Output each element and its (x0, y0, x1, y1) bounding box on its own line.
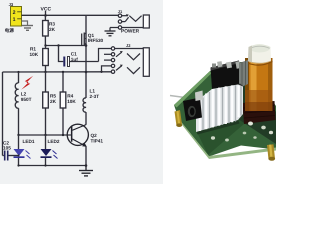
svg-text:R4: R4 (67, 94, 73, 99)
photo: heatsink back fins (239, 60, 248, 88)
svg-text:1: 1 (13, 17, 16, 23)
photo: coil dark lower section (243, 101, 276, 124)
LED2 (41, 135, 60, 166)
node dot Q1 source (85, 44, 88, 47)
photo: board shading under heatsink (196, 113, 244, 155)
svg-text:TIP41: TIP41 (91, 138, 104, 143)
svg-text:2K: 2K (50, 99, 57, 104)
resistor R5 2K (43, 72, 57, 135)
node dot R4 top (62, 71, 64, 73)
svg-text:Q2: Q2 (91, 133, 98, 138)
svg-text:J1: J1 (118, 9, 123, 14)
photo: white backdrop (163, 0, 276, 184)
resistor R4 10K (60, 72, 76, 135)
LED1 (14, 135, 35, 166)
photo: heatsink shadow band (214, 84, 243, 96)
node dot C1 drop (57, 44, 59, 46)
svg-text:L2: L2 (21, 92, 27, 97)
connector J3 (power input, yellow) (9, 2, 22, 26)
transistor Q1 IRF530 (N-MOSFET) (81, 15, 103, 46)
photo: coil copper body (245, 58, 273, 111)
resistor R3 2K (43, 15, 56, 45)
connector J1 POWER (DC jack) (110, 9, 149, 34)
wire: gate node (R3/R1 to Q1) (46, 45, 87, 47)
photo: board front edge face (177, 116, 277, 159)
svg-text:R5: R5 (50, 94, 56, 99)
photo: black module on heatsink (211, 61, 241, 90)
photo: small board components (211, 136, 215, 139)
wire: Q2 emitter down (85, 147, 87, 166)
svg-text:2K: 2K (49, 27, 56, 32)
wire: bottom rail (19, 165, 87, 167)
capacitor C1 1uf (59, 46, 99, 67)
connector J2 (output jack) (99, 43, 150, 76)
ground (near J3) (22, 26, 33, 31)
svg-text:L1: L1 (90, 89, 96, 94)
photo: board far edge light strip (174, 71, 211, 108)
svg-text:950T: 950T (21, 97, 32, 102)
svg-text:电源: 电源 (5, 28, 15, 33)
svg-text:10K: 10K (30, 52, 39, 57)
wire: mid bus (3, 71, 112, 73)
resistor R1 10K (30, 46, 49, 73)
photo: thin wire left of board (170, 96, 196, 100)
svg-text:J3: J3 (9, 2, 14, 7)
photo: DC jack barrel (183, 98, 202, 122)
svg-text:10K: 10K (67, 99, 76, 104)
svg-text:1uf: 1uf (71, 57, 78, 62)
node dot R1/R5 (44, 71, 46, 73)
svg-text:C2: C2 (3, 140, 9, 145)
node dot LED1 bottom (17, 164, 19, 166)
photo: heatsink fin slots (203, 85, 241, 130)
svg-text:LED2: LED2 (48, 139, 60, 144)
node dot J2 pin4 (100, 71, 102, 73)
svg-text:R3: R3 (49, 22, 55, 27)
spark bolt (red) (21, 76, 33, 90)
svg-text:105: 105 (3, 146, 11, 151)
inductor L1 2-3T (primary) (83, 72, 99, 125)
wire: left rail (2, 72, 4, 156)
capacitor C2 105 (3, 140, 20, 160)
svg-text:2-3T: 2-3T (90, 94, 100, 99)
node dot Q1 source / L1 (85, 71, 88, 74)
node dot LED1/L2 (17, 134, 19, 136)
node dot R1/R3 (44, 44, 46, 46)
node dot LED2/R5 (44, 134, 46, 136)
svg-text:J2: J2 (126, 43, 131, 48)
svg-text:2: 2 (13, 10, 16, 16)
node dot LED2 bottom (44, 164, 46, 166)
ground (J1) (105, 31, 116, 36)
node dot R4/base (62, 134, 64, 136)
photo: PCB board top surface (174, 62, 276, 157)
wire: J3 pin1 to ground (22, 21, 28, 25)
svg-text:IRF530: IRF530 (88, 38, 104, 43)
wire: C1 to J2 pin1 (99, 49, 112, 62)
inductor L2 950T (secondary) (15, 72, 31, 135)
wire: VCC stub (45, 11, 47, 15)
wire: base bus (19, 134, 71, 136)
photo: coil white cap (248, 44, 271, 63)
svg-text:R1: R1 (30, 47, 36, 52)
schematic background (0, 0, 163, 184)
photo: heatsink body (196, 85, 243, 133)
wire: Q1 source down to bus (85, 46, 87, 73)
wire: top rail (J3 pin2 to J1) (22, 14, 119, 16)
photo: board dark area right of heatsink (238, 80, 276, 144)
node dot emitter/ground (85, 164, 88, 167)
photo: brass standoff bottom right (267, 144, 275, 159)
photo: brass standoff left (175, 110, 183, 126)
node dot L2 top (17, 71, 19, 73)
svg-text:POWER: POWER (121, 28, 140, 34)
svg-text:LED1: LED1 (23, 139, 35, 144)
transistor Q2 TIP41 (NPN) (67, 124, 103, 147)
ground (main) (79, 166, 93, 176)
